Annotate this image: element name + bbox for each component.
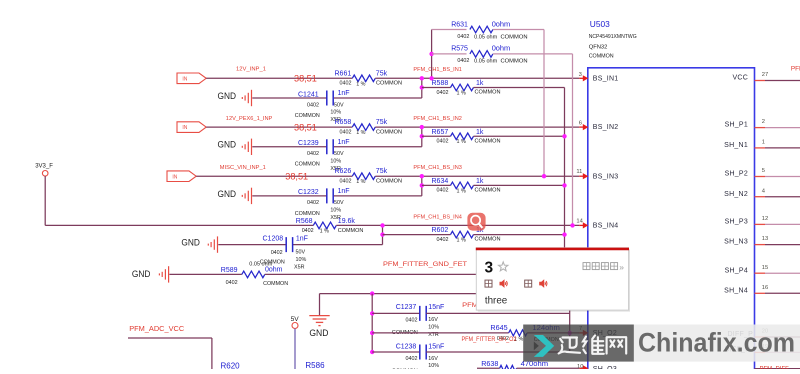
svg-text:PFM_CH1_BS_IN2: PFM_CH1_BS_IN2 — [413, 116, 462, 122]
svg-text:6: 6 — [579, 120, 582, 126]
svg-text:GND: GND — [132, 269, 151, 279]
svg-text:0402: 0402 — [406, 356, 418, 362]
resistor R568 19.6k — [296, 218, 364, 235]
svg-text:C1208: C1208 — [263, 236, 284, 243]
popup US label — [525, 280, 532, 287]
wire R631 to BS_IN3 — [542, 30, 546, 179]
value 38,51 (row 3) — [285, 170, 308, 181]
capacitor C1208 1nF — [260, 236, 308, 271]
wire net PFM_CH1_BS_IN4 to pin — [336, 224, 579, 226]
svg-text:PFM_FITTER_SH_O2: PFM_FITTER_SH_O2 — [462, 336, 517, 343]
svg-text:COMMON: COMMON — [376, 179, 402, 185]
svg-text:5: 5 — [762, 168, 765, 174]
svg-text:50V: 50V — [334, 151, 344, 157]
svg-text:3: 3 — [579, 72, 582, 78]
wire GND to C1208 — [218, 244, 286, 246]
wire 1k output bus — [562, 88, 566, 251]
pin number 14 — [576, 219, 583, 225]
pin number 11 — [576, 169, 582, 175]
watermark brand chars — [559, 335, 627, 353]
svg-text:75k: 75k — [376, 70, 388, 77]
svg-text:COMMON: COMMON — [295, 113, 320, 119]
net label PFM_FITTER_GND_FET — [383, 261, 467, 268]
wire GND to cap row 1 — [252, 97, 326, 99]
svg-text:0402: 0402 — [307, 102, 319, 108]
svg-text:10%: 10% — [330, 159, 341, 165]
net label PFM_CH1_BS_IN1 — [413, 67, 462, 73]
svg-text:R631: R631 — [451, 21, 468, 28]
ground GND (row 3) — [218, 188, 252, 204]
net label PFM_CH1_BS_IN3 — [413, 165, 462, 171]
svg-text:15nF: 15nF — [428, 343, 444, 350]
svg-text:BS_IN2: BS_IN2 — [593, 124, 619, 131]
pin label SH_O2 — [593, 330, 617, 337]
svg-text:1: 1 — [762, 140, 765, 146]
svg-text:SH_N3: SH_N3 — [724, 239, 748, 246]
watermark Chinafix.com — [638, 328, 795, 358]
wire net PFM_CH1_BS_IN2 to pin — [375, 126, 579, 128]
net label 12V_INP_1 — [236, 66, 266, 72]
pin 20 DIFF_P — [727, 329, 800, 339]
svg-text:1 %: 1 % — [457, 90, 466, 96]
pin 6 BS_IN2 arrow — [579, 124, 588, 130]
svg-text:0402: 0402 — [307, 151, 319, 157]
svg-text:PFM_ADC_VCC: PFM_ADC_VCC — [129, 324, 185, 333]
svg-text:PFM_CH1_BS_IN4: PFM_CH1_BS_IN4 — [413, 214, 462, 220]
resistor R620 — [221, 361, 241, 370]
svg-text:10%: 10% — [296, 257, 307, 263]
pin 5 SH_P2 — [725, 168, 800, 178]
pin 2 SH_P1 — [725, 119, 800, 129]
svg-text:PFM_CH1_BS_IN3: PFM_CH1_BS_IN3 — [413, 165, 462, 171]
ground GND (row 4) — [181, 236, 217, 252]
svg-text:MISC_VIN_INP_1: MISC_VIN_INP_1 — [220, 165, 266, 171]
pin 14 BS_IN4 arrow — [579, 222, 588, 228]
power 5V — [291, 316, 300, 369]
svg-text:38,51: 38,51 — [294, 121, 317, 132]
capacitor C1238 15nF — [372, 343, 570, 374]
port IN (row 1) — [177, 73, 206, 84]
resistor R588 1k — [422, 80, 565, 96]
svg-text:SH_N2: SH_N2 — [724, 191, 748, 198]
pin label SH_O3 — [593, 366, 617, 373]
svg-text:SH_P2: SH_P2 — [725, 171, 748, 178]
resistor R661 75k — [335, 70, 403, 87]
svg-text:38,51: 38,51 — [285, 170, 308, 181]
watermark chevron logo — [534, 335, 554, 357]
wire GND to cap row 3 — [252, 195, 326, 197]
svg-text:10%: 10% — [330, 208, 341, 214]
svg-text:1 %: 1 % — [356, 179, 365, 185]
net label PFM_CH1_BS_IN4 — [413, 214, 462, 220]
pin number 7 — [579, 326, 582, 332]
wire PFM_ADC_VCC — [128, 338, 212, 369]
wire ground bus vertical — [370, 294, 374, 355]
svg-text:0402: 0402 — [302, 228, 314, 234]
svg-text:10%: 10% — [330, 110, 341, 116]
svg-text:2: 2 — [762, 119, 765, 125]
svg-text:16V: 16V — [428, 356, 438, 362]
svg-text:27: 27 — [762, 72, 768, 78]
wire 12V_INP_1 port to R — [206, 77, 352, 79]
ground GND (bottom, vertical) — [309, 294, 329, 338]
svg-text:0402: 0402 — [457, 58, 469, 64]
svg-text:R620: R620 — [221, 361, 241, 369]
svg-text:BS_IN1: BS_IN1 — [593, 75, 619, 82]
svg-text:0402: 0402 — [340, 179, 352, 185]
net label PFM_ADC_VCC — [129, 324, 185, 333]
svg-text:Chinafix.com: Chinafix.com — [638, 328, 795, 358]
svg-text:1 %: 1 % — [457, 188, 466, 194]
pin label BS_IN2 — [593, 124, 619, 131]
net label 12V_PEX6_1_INP — [226, 116, 273, 122]
svg-text:0402: 0402 — [226, 280, 238, 286]
svg-text:GND: GND — [218, 189, 237, 199]
wire net PFM_CH1_BS_IN1 to pin — [375, 77, 579, 79]
svg-text:0402: 0402 — [457, 34, 469, 40]
wire 3V3_F to R568 — [45, 176, 313, 225]
svg-text:3: 3 — [485, 260, 494, 277]
resistor R657 1k — [422, 129, 565, 145]
svg-text:U503: U503 — [590, 19, 610, 29]
svg-text:NCP45491XMNTWG: NCP45491XMNTWG — [589, 34, 637, 40]
resistor R645 124ohm — [372, 323, 579, 343]
svg-text:19.6k: 19.6k — [338, 218, 356, 225]
svg-text:14: 14 — [576, 219, 583, 225]
svg-text:0.05 ohm: 0.05 ohm — [249, 261, 273, 267]
value 38,51 (row 1) — [294, 73, 317, 84]
pin label BS_IN4 — [593, 223, 619, 230]
net label PFM (top right, clipped) — [791, 66, 800, 73]
svg-text:10%: 10% — [428, 363, 439, 369]
svg-text:16: 16 — [762, 285, 768, 291]
svg-text:»: » — [619, 262, 624, 272]
node junction dots row 2 — [420, 125, 424, 139]
op-amp U1 / IC U503 header — [589, 19, 637, 59]
svg-text:16V: 16V — [428, 317, 438, 323]
svg-text:BS_IN4: BS_IN4 — [593, 223, 619, 230]
IC U503 body — [588, 68, 755, 374]
svg-text:50V: 50V — [296, 250, 306, 256]
svg-text:C1237: C1237 — [396, 304, 417, 311]
svg-text:COMMON: COMMON — [475, 90, 501, 96]
pin 13 SH_N3 — [724, 236, 800, 246]
svg-text:10%: 10% — [428, 325, 439, 331]
svg-text:SH_P3: SH_P3 — [725, 219, 748, 226]
svg-text:COMMON: COMMON — [475, 237, 501, 243]
resistor R658 75k — [335, 119, 403, 136]
wire net PFM_CH1_BS_IN3 to pin — [375, 175, 579, 177]
svg-text:GND: GND — [181, 238, 200, 248]
wire junction drop row 3 — [334, 176, 422, 196]
dictionary popup box — [476, 248, 630, 312]
svg-text:IN: IN — [182, 76, 187, 82]
svg-text:R645: R645 — [490, 323, 507, 332]
svg-text:IN: IN — [172, 174, 177, 180]
pin number 3 — [579, 72, 582, 78]
svg-text:1 %: 1 % — [457, 238, 466, 244]
resistor R586 — [305, 361, 325, 370]
pin number 10 — [577, 364, 583, 370]
svg-text:0ohm: 0ohm — [265, 267, 283, 274]
svg-text:50V: 50V — [334, 102, 344, 108]
wire junction drop row 4 — [293, 225, 383, 244]
resistor R634 1k — [422, 178, 565, 194]
wire BS_IN1 riser to jumpers — [429, 30, 433, 81]
svg-text:R658: R658 — [335, 119, 352, 126]
svg-text:C1238: C1238 — [396, 343, 417, 350]
svg-text:BS_IN3: BS_IN3 — [593, 173, 619, 180]
popup link (more meanings) — [583, 262, 624, 272]
svg-text:R634: R634 — [432, 178, 449, 185]
svg-text:0402: 0402 — [406, 317, 418, 323]
wire GND net top (y294) — [320, 291, 570, 295]
port IN (row 3) — [167, 171, 196, 182]
popup EN label — [485, 280, 492, 287]
svg-text:75k: 75k — [376, 168, 388, 175]
wire R575 to BS_IN4 — [570, 54, 574, 228]
svg-text:1 %: 1 % — [356, 81, 365, 87]
svg-text:15: 15 — [762, 265, 768, 271]
svg-text:0402: 0402 — [437, 188, 449, 194]
svg-text:PFM_FITTER_GND_FET: PFM_FITTER_GND_FET — [383, 261, 467, 268]
svg-text:COMMON: COMMON — [475, 138, 501, 144]
svg-text:0402: 0402 — [340, 81, 352, 87]
svg-text:1 %: 1 % — [356, 130, 365, 136]
resistor R626 75k — [335, 168, 403, 185]
capacitor C1232 1nF — [295, 188, 350, 221]
svg-text:R589: R589 — [221, 267, 238, 274]
svg-text:0402: 0402 — [437, 90, 449, 96]
svg-text:COMMON: COMMON — [338, 228, 364, 234]
svg-text:12V_PEX6_1_INP: 12V_PEX6_1_INP — [226, 116, 273, 122]
svg-text:0.05 ohm: 0.05 ohm — [474, 34, 498, 40]
svg-text:1nF: 1nF — [296, 236, 308, 243]
ground GND (row 1) — [218, 90, 252, 106]
svg-text:R661: R661 — [335, 70, 352, 77]
svg-text:GND: GND — [218, 91, 237, 101]
pin 21 stub (bottom right) — [755, 367, 800, 373]
popup text three — [485, 296, 508, 307]
svg-text:QFN32: QFN32 — [589, 45, 608, 51]
svg-text:R586: R586 — [305, 361, 325, 369]
wire junction drop row 2 — [334, 127, 422, 147]
pin 10 SH_O3 arrow — [579, 365, 588, 371]
svg-text:1k: 1k — [476, 129, 484, 136]
pin 3 BS_IN1 arrow — [579, 75, 588, 81]
value 38,51 (row 2) — [294, 121, 317, 132]
svg-text:11: 11 — [576, 169, 582, 175]
svg-text:R602: R602 — [432, 227, 449, 234]
svg-text:0ohm: 0ohm — [492, 44, 511, 53]
resistor R575 0ohm — [432, 44, 573, 65]
pin 12 SH_P3 — [725, 216, 800, 226]
port IN (row 2) — [177, 122, 206, 133]
svg-text:0402: 0402 — [307, 200, 319, 206]
svg-text:38,51: 38,51 — [294, 73, 317, 84]
node junction dots row 4 — [380, 223, 384, 237]
popup US speaker icon — [539, 279, 547, 288]
capacitor C1239 1nF — [295, 139, 350, 172]
pin label BS_IN1 — [593, 75, 619, 82]
pin 19 DIFF_N — [725, 344, 800, 354]
svg-text:75k: 75k — [376, 119, 388, 126]
svg-text:1nF: 1nF — [338, 90, 350, 97]
popup UK speaker icon — [500, 279, 508, 288]
net label MISC_VIN_INP_1 — [220, 165, 266, 171]
svg-text:R626: R626 — [335, 168, 352, 175]
svg-text:VCC: VCC — [732, 75, 748, 82]
svg-text:12V_INP_1: 12V_INP_1 — [236, 66, 266, 72]
svg-text:1nF: 1nF — [338, 188, 350, 195]
watermark light box — [634, 325, 800, 362]
svg-text:COMMON: COMMON — [376, 130, 402, 136]
svg-text:R588: R588 — [432, 80, 449, 87]
svg-text:R568: R568 — [296, 218, 313, 225]
wire 12V_PEX6_1_INP port to R — [206, 126, 352, 128]
pin 27 VCC — [732, 72, 800, 82]
svg-text:13: 13 — [762, 236, 768, 242]
svg-text:0ohm: 0ohm — [492, 19, 511, 28]
popup text 3 — [485, 260, 494, 277]
pin 16 SH_N4 — [724, 285, 800, 295]
svg-text:1nF: 1nF — [338, 139, 350, 146]
svg-text:GND: GND — [309, 327, 328, 338]
magnifier search icon — [467, 213, 485, 231]
svg-text:0.05 ohm: 0.05 ohm — [474, 59, 498, 65]
svg-text:0402: 0402 — [437, 139, 449, 145]
wire GND to cap row 2 — [252, 146, 326, 148]
pin number 6 — [579, 120, 582, 126]
svg-text:SH_P1: SH_P1 — [725, 122, 748, 129]
svg-text:C1232: C1232 — [298, 189, 319, 196]
svg-text:1k: 1k — [476, 80, 484, 87]
svg-text:R638: R638 — [481, 359, 498, 368]
svg-text:R657: R657 — [432, 129, 449, 136]
svg-text:three: three — [485, 296, 508, 307]
net label PFM_FITTER_SH_O2 — [462, 336, 517, 343]
wire MISC_VIN_INP_1 port to R — [196, 175, 352, 177]
pin 1 SH_N1 — [724, 140, 800, 150]
svg-text:C1239: C1239 — [298, 140, 319, 147]
capacitor C1237 15nF — [372, 304, 570, 338]
svg-text:COMMON: COMMON — [263, 281, 288, 287]
resistor R638 470ohm — [477, 359, 579, 372]
svg-text:1k: 1k — [476, 178, 484, 185]
wire riser x570 — [568, 294, 572, 352]
pin 4 SH_N2 — [724, 188, 800, 198]
svg-text:R575: R575 — [451, 46, 468, 53]
svg-text:IN: IN — [182, 125, 187, 131]
svg-text:COMMON: COMMON — [295, 162, 320, 168]
power 3V3_F — [35, 164, 53, 177]
pin 11 BS_IN3 arrow — [579, 173, 588, 179]
wire junction drop row 1 — [334, 78, 422, 98]
watermark dark box — [523, 325, 634, 362]
svg-text:1 %: 1 % — [457, 139, 466, 145]
pin 7 SH_O2 arrow — [579, 330, 588, 336]
pin label BS_IN3 — [593, 173, 619, 180]
svg-text:12: 12 — [762, 216, 768, 222]
svg-text:SH_N1: SH_N1 — [724, 142, 748, 149]
resistor R589 0ohm — [169, 261, 476, 287]
svg-text:PFM_CH1_BS_IN1: PFM_CH1_BS_IN1 — [413, 67, 462, 73]
svg-text:SH_N4: SH_N4 — [724, 287, 748, 294]
svg-text:50V: 50V — [334, 200, 344, 206]
svg-text:5V: 5V — [291, 316, 300, 323]
net label PFM_FITTER_SH_O1 — [462, 302, 538, 309]
svg-text:0402: 0402 — [271, 250, 283, 256]
svg-text:1 %: 1 % — [320, 229, 329, 235]
node junction dots row 1 — [420, 76, 424, 90]
svg-text:C1241: C1241 — [298, 91, 319, 98]
svg-text:X5R: X5R — [294, 265, 305, 271]
svg-text:3V3_F: 3V3_F — [35, 164, 53, 170]
svg-text:PFM_CH1_VCC: PFM_CH1_VCC — [791, 66, 800, 73]
svg-text:COMMON: COMMON — [475, 187, 501, 193]
svg-text:0402: 0402 — [340, 130, 352, 136]
svg-text:COMMON: COMMON — [501, 59, 528, 65]
ground GND (R589 row) — [132, 266, 169, 282]
svg-text:GND: GND — [218, 140, 237, 150]
node junction dots row 3 — [420, 174, 424, 188]
pin 15 SH_P4 — [725, 265, 800, 275]
svg-text:SH_P4: SH_P4 — [725, 267, 748, 274]
svg-text:15nF: 15nF — [428, 304, 444, 311]
svg-text:0402: 0402 — [437, 237, 449, 243]
resistor R602 1k — [383, 227, 565, 243]
svg-text:COMMON: COMMON — [501, 34, 528, 40]
net label PFM_CH1_BS_IN2 — [413, 116, 462, 122]
capacitor C1241 1nF — [295, 90, 350, 123]
popup star icon — [499, 262, 508, 271]
svg-text:COMMON: COMMON — [589, 53, 614, 59]
ground GND (row 2) — [218, 139, 252, 155]
resistor R631 0ohm — [432, 19, 544, 40]
svg-text:COMMON: COMMON — [295, 211, 320, 217]
svg-text:COMMON: COMMON — [376, 81, 402, 87]
